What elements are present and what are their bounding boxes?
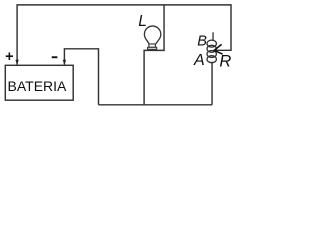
lamp L bbox=[144, 26, 160, 49]
svg-text:B: B bbox=[197, 34, 207, 50]
svg-text:+: + bbox=[5, 49, 13, 65]
terminal arrow + bbox=[15, 60, 18, 65]
wire: rheostat bottom stub to bottom rail bbox=[211, 62, 213, 105]
svg-text:A: A bbox=[193, 52, 205, 69]
wire: battery + up, top rail, right drop to wiper shaft bbox=[17, 5, 231, 65]
svg-text:R: R bbox=[219, 53, 231, 71]
terminal arrow - bbox=[63, 60, 66, 65]
battery BATERIA bbox=[5, 65, 73, 100]
label - bbox=[52, 56, 58, 58]
rheostat wiper arrow bbox=[214, 44, 222, 54]
wire: bottom rail bbox=[99, 104, 213, 106]
rheostat R: top stub B bbox=[212, 32, 214, 41]
rheostat R coil bbox=[207, 40, 216, 63]
svg-text:BATERIA: BATERIA bbox=[8, 78, 68, 94]
wire: top rail T-drop to lamp holder bbox=[144, 5, 164, 105]
svg-text:L: L bbox=[138, 13, 147, 30]
wire: battery - up and over to bottom drop bbox=[64, 49, 98, 105]
